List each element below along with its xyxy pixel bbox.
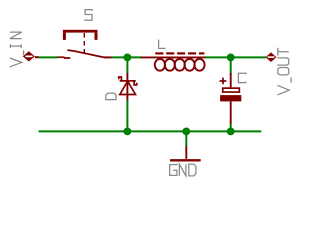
label D: [106, 93, 116, 99]
terminal V_IN: [23, 51, 39, 61]
label V_IN: [10, 32, 24, 67]
wire: [39, 56, 58, 58]
wire: [126, 57, 128, 73]
ground: [170, 146, 201, 160]
wire: [230, 57, 232, 73]
wire: [112, 56, 143, 58]
wire: [230, 123, 232, 131]
wire ground rail: [39, 130, 262, 132]
label L: [159, 40, 166, 49]
switch S: [58, 30, 112, 58]
label V_OUT: [277, 48, 291, 95]
junction rail-cap: [227, 127, 235, 135]
wire: [126, 100, 128, 131]
wire: [205, 56, 266, 58]
label C: [238, 73, 245, 82]
label S: [85, 10, 92, 21]
terminal V_OUT: [266, 52, 277, 62]
junction node 1: [124, 53, 132, 61]
diode D (schottky): [119, 73, 137, 101]
junction rail-gnd: [182, 127, 190, 135]
label GND: [170, 165, 177, 176]
junction rail-diode: [124, 127, 132, 135]
inductor L: [141, 53, 206, 70]
capacitor C (polarized): [220, 73, 242, 124]
junction node 2: [227, 53, 235, 61]
wire: [185, 131, 187, 146]
